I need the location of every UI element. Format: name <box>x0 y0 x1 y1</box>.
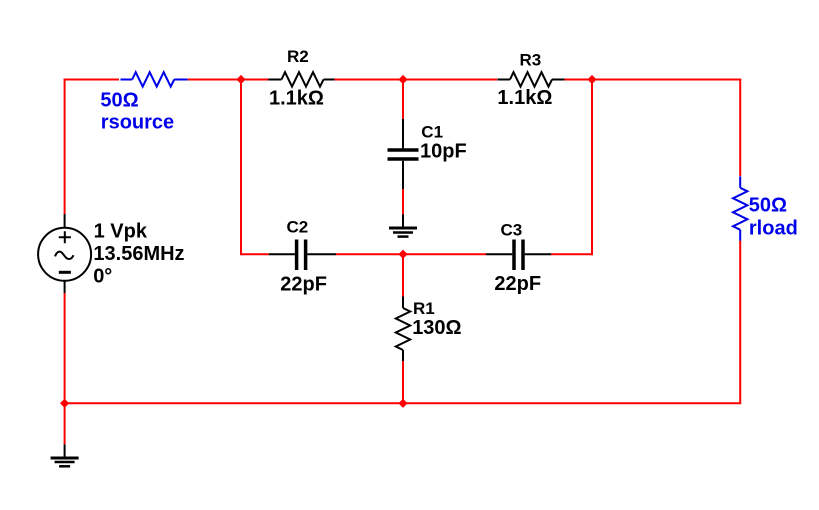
svg-text:R2: R2 <box>287 47 309 66</box>
svg-text:rsource: rsource <box>101 112 174 134</box>
svg-text:22pF: 22pF <box>280 273 327 295</box>
svg-text:rload: rload <box>749 217 798 239</box>
svg-text:22pF: 22pF <box>494 273 541 295</box>
svg-text:1 Vpk: 1 Vpk <box>94 221 148 243</box>
wire R2 to node at x=403 <box>335 79 498 81</box>
ac source V1 <box>38 214 91 293</box>
svg-text:C1: C1 <box>421 123 443 142</box>
node junction at x=403 top <box>398 75 407 84</box>
ground main (bottom left) <box>51 444 79 466</box>
capacitor C3 <box>486 240 551 271</box>
resistor rsource (50 ohm, blue) <box>121 72 188 86</box>
svg-text:R1: R1 <box>413 299 435 318</box>
wire left vertical (corner down to source) <box>64 79 66 215</box>
wire stub down to main ground <box>64 403 66 444</box>
svg-text:13.56MHz: 13.56MHz <box>93 243 184 265</box>
node junction at x=403 middle <box>398 250 407 259</box>
svg-text:C3: C3 <box>501 221 523 240</box>
wire C1 to its ground <box>402 189 404 214</box>
wire middle row left corner to C2 <box>241 253 269 255</box>
resistor R1 (vertical) <box>396 297 410 362</box>
wire right vertical lower <box>739 241 741 403</box>
svg-text:C2: C2 <box>287 218 309 237</box>
wire C1 branch upper <box>402 80 404 120</box>
wire bottom horizontal <box>64 402 742 404</box>
wire C2 to middle node <box>336 253 486 255</box>
wire right vertical upper <box>739 79 741 177</box>
svg-text:1.1kΩ: 1.1kΩ <box>269 88 324 110</box>
wire R1 to bottom wire <box>402 361 404 403</box>
wire top-left horizontal (corner to rsource) <box>64 79 119 81</box>
svg-text:1.1kΩ: 1.1kΩ <box>497 87 552 109</box>
wire source to bottom-left corner <box>64 293 66 403</box>
wire R1 branch upper <box>402 254 404 296</box>
resistor R2 <box>268 72 334 86</box>
resistor R3 <box>497 72 564 86</box>
capacitor C1 (vertical) <box>388 119 419 189</box>
node junction at x=241 top <box>236 75 245 84</box>
svg-text:50Ω: 50Ω <box>749 195 787 217</box>
ground for C1 <box>389 214 417 236</box>
svg-text:R3: R3 <box>520 51 542 70</box>
svg-text:0°: 0° <box>93 265 112 287</box>
wire branch vertical x=592 <box>591 80 593 256</box>
wire branch vertical x=241 <box>240 80 242 256</box>
wire R3 to top-right corner <box>565 79 742 81</box>
wire rsource to R2 <box>188 79 269 81</box>
wire C3 to middle row right corner <box>551 253 592 255</box>
svg-text:130Ω: 130Ω <box>412 317 461 339</box>
svg-text:10pF: 10pF <box>420 141 467 163</box>
svg-text:50Ω: 50Ω <box>100 89 138 111</box>
resistor rload (50 ohm, blue, vertical) <box>733 176 747 241</box>
node junction at x=592 top <box>587 75 596 84</box>
node junction bottom-left <box>60 399 69 408</box>
capacitor C2 <box>269 240 336 271</box>
node junction at x=403 bottom <box>398 399 407 408</box>
